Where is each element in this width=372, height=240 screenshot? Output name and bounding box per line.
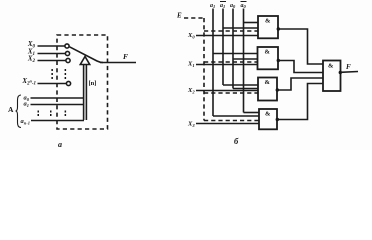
- wire a0bar to gate1: [244, 22, 259, 24]
- svg-text:a1: a1: [210, 3, 215, 9]
- wire E dashed vertical: [203, 18, 205, 121]
- svg-text:&: &: [265, 18, 271, 25]
- wire output F: [341, 71, 359, 74]
- wire a0: [31, 97, 84, 99]
- contact X0: [65, 44, 69, 48]
- ellipsis between a1 and an-1: [38, 111, 67, 117]
- svg-text:a0: a0: [241, 3, 247, 9]
- wire E branch gate2: [204, 61, 258, 63]
- wire a1: [31, 104, 84, 106]
- dashed switch box: [57, 35, 108, 129]
- wire output F: [100, 62, 136, 64]
- switch arm: [70, 47, 104, 63]
- ellipsis between X2 and X2n-1: [51, 69, 66, 79]
- wire U4 output to U5: [277, 84, 323, 120]
- wire E dashed horizontal: [184, 17, 204, 19]
- svg-text:&: &: [265, 49, 271, 56]
- wire U3 output to U5: [277, 78, 323, 90]
- wire X0: [196, 35, 258, 37]
- selector arrow (hollow): [80, 57, 89, 121]
- svg-text:[n]: [n]: [89, 80, 97, 87]
- svg-text:a: a: [58, 140, 62, 149]
- wire E branch gate3: [204, 92, 258, 94]
- and-gate U4: [259, 109, 279, 129]
- net a1 vertical: [212, 9, 214, 117]
- wire a0bar to gate4: [244, 112, 260, 114]
- wire X1: [196, 64, 258, 66]
- brace: [16, 95, 22, 128]
- or-gate U5: [323, 61, 342, 92]
- wire a1 to gate2: [213, 53, 258, 55]
- svg-text:&: &: [328, 63, 334, 70]
- svg-text:&: &: [265, 79, 271, 86]
- net a0bar vertical: [243, 9, 245, 113]
- wire X2 input: [38, 60, 66, 62]
- and-gate U1: [258, 16, 280, 38]
- wire an-1: [31, 120, 84, 122]
- overline a1bar: [220, 1, 226, 3]
- wire X1 input: [38, 53, 66, 55]
- wire E branch gate4: [204, 120, 259, 122]
- wire a1 to gate4: [213, 115, 259, 117]
- svg-text:E: E: [176, 12, 182, 20]
- svg-text:a1: a1: [220, 3, 225, 9]
- net a0 vertical: [232, 9, 234, 89]
- wire a1bar to gate1: [223, 27, 258, 29]
- svg-text:F: F: [346, 63, 351, 71]
- wire X3: [196, 123, 259, 125]
- overline a0bar: [241, 1, 247, 3]
- contact X2: [66, 58, 70, 62]
- contact X2^n-1: [66, 81, 70, 85]
- and-gate U2: [258, 47, 280, 69]
- wire a1bar to gate3: [223, 84, 258, 86]
- wire a0 to gate2: [233, 58, 258, 60]
- wire E branch gate1: [204, 30, 258, 32]
- wire U1 output to U5: [278, 29, 323, 64]
- wire X0 input: [38, 45, 65, 47]
- and-gate U3: [258, 78, 279, 101]
- net a1bar vertical: [222, 9, 224, 86]
- svg-text:a0: a0: [230, 3, 236, 9]
- svg-text:A: A: [8, 105, 14, 114]
- contact X1: [65, 51, 69, 55]
- wire U2 output to U5: [278, 61, 323, 73]
- svg-text:F: F: [123, 52, 128, 61]
- wire X2: [196, 90, 258, 92]
- wire a0 to gate3: [233, 88, 258, 90]
- wire X2^n-1 input: [38, 83, 67, 85]
- svg-text:&: &: [265, 111, 271, 118]
